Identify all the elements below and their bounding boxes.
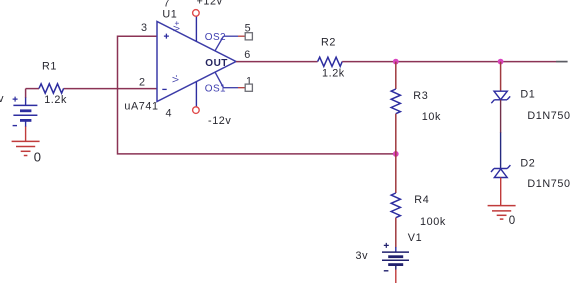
wire D2 to ground: [500, 178, 502, 206]
junction node (feedback / R3-R4): [393, 151, 399, 157]
wire pin 3 to feedback node (positive feedback path): [118, 36, 395, 154]
svg-text:+12v: +12v: [197, 0, 223, 8]
junction node (R2 / R3): [393, 59, 399, 65]
svg-text:0: 0: [34, 150, 42, 165]
voltage source V (left, value text cut off): [13, 97, 38, 126]
label OS1: [205, 83, 226, 94]
value D1N750 (D1): [527, 110, 570, 122]
value D1N750 (D2): [527, 178, 570, 190]
wire junction to D1: [500, 62, 502, 92]
value 100k: [420, 216, 446, 228]
svg-text:-12v: -12v: [208, 115, 231, 127]
value 1.2k (R1): [44, 94, 67, 106]
value 3v: [356, 250, 369, 262]
pin OS1 (diagonal, stub and open square, pin 1): [215, 72, 252, 91]
voltage source V1 (3v): [382, 243, 409, 271]
label +12v: [197, 0, 223, 8]
wire R1 right lead to op-amp pin 2: [64, 88, 157, 90]
label R2: [321, 36, 336, 48]
V+ power pin stub and circle (+12v): [193, 10, 200, 42]
label OS2: [205, 32, 226, 43]
wire battery top stem: [25, 89, 27, 106]
wire output pin 6 to R2: [236, 61, 318, 63]
ground 0 (left): [12, 141, 40, 155]
wire D1 to D2: [500, 100, 502, 169]
svg-text:uA741: uA741: [124, 100, 158, 112]
source value text v (clipped at left edge): [0, 93, 4, 105]
svg-text:D1N750: D1N750: [527, 178, 570, 190]
label -12v: [208, 115, 231, 127]
svg-text:3v: 3v: [356, 250, 369, 262]
wire battery bottom stem to ground: [25, 120, 27, 141]
pin number 7 (clipped at top): [164, 0, 170, 9]
label R4: [414, 194, 429, 206]
label V1: [408, 232, 422, 244]
svg-text:D1N750: D1N750: [527, 110, 570, 122]
svg-text:100k: 100k: [420, 216, 446, 228]
svg-text:7: 7: [164, 0, 170, 9]
ground 0 (right): [488, 206, 516, 220]
wire R2 to junction and D1 branch: [342, 61, 556, 63]
pin number 2: [139, 76, 145, 88]
pin number 5: [245, 23, 251, 35]
svg-text:10k: 10k: [422, 111, 441, 123]
svg-text:v: v: [0, 93, 4, 105]
svg-text:D2: D2: [520, 158, 535, 170]
label R1: [42, 60, 57, 72]
resistor R1: [39, 84, 64, 93]
wire junction down to R3: [395, 62, 397, 89]
zener diode D2: [491, 165, 510, 177]
svg-text:0: 0: [509, 215, 516, 227]
svg-text:1.2k: 1.2k: [44, 94, 67, 106]
svg-text:6: 6: [244, 49, 250, 61]
wire stub (gray, right edge): [556, 61, 568, 63]
wire junction down to R4: [395, 154, 397, 193]
wire R4 to V1: [395, 218, 397, 252]
label U1: [162, 9, 177, 21]
svg-text:1.2k: 1.2k: [322, 67, 345, 79]
pin number 4: [166, 108, 172, 120]
svg-text:R3: R3: [413, 90, 428, 102]
pin number 6: [244, 49, 250, 61]
V- power pin stub and circle (-12v): [193, 82, 200, 114]
resistor R4: [391, 193, 400, 218]
svg-text:V-: V-: [171, 74, 181, 82]
label D1: [520, 88, 535, 100]
zener diode D1: [491, 91, 510, 103]
resistor R3: [391, 89, 400, 114]
label 0 (right ground): [509, 215, 516, 227]
svg-text:R2: R2: [321, 36, 336, 48]
svg-text:R4: R4: [414, 194, 429, 206]
pin number 1: [246, 76, 252, 88]
label R3: [413, 90, 428, 102]
label 0 (left ground): [34, 150, 42, 165]
junction node (D1 branch): [498, 59, 504, 65]
svg-text:3: 3: [141, 22, 147, 34]
wire V1 to bottom edge: [395, 265, 397, 283]
value 1.2k (R2): [322, 67, 345, 79]
svg-text:OS1: OS1: [205, 83, 226, 94]
svg-text:2: 2: [139, 76, 145, 88]
label uA741: [124, 100, 158, 112]
svg-text:V+: V+: [172, 21, 182, 32]
label D2: [520, 158, 535, 170]
svg-text:OUT: OUT: [205, 58, 228, 69]
svg-text:D1: D1: [520, 88, 535, 100]
pin OS2 (diagonal, stub and open square, pin 5): [215, 33, 252, 51]
svg-text:R1: R1: [42, 60, 57, 72]
svg-text:U1: U1: [162, 9, 177, 21]
svg-text:OS2: OS2: [205, 32, 226, 43]
resistor R2: [318, 57, 343, 66]
svg-text:4: 4: [166, 108, 172, 120]
svg-text:V1: V1: [408, 232, 422, 244]
wire R3 to feedback junction: [395, 114, 397, 154]
wire input from source to pin 2 (left segment): [26, 88, 39, 90]
op-amp U1: [157, 21, 236, 102]
value 10k: [422, 111, 441, 123]
pin number 3: [141, 22, 147, 34]
